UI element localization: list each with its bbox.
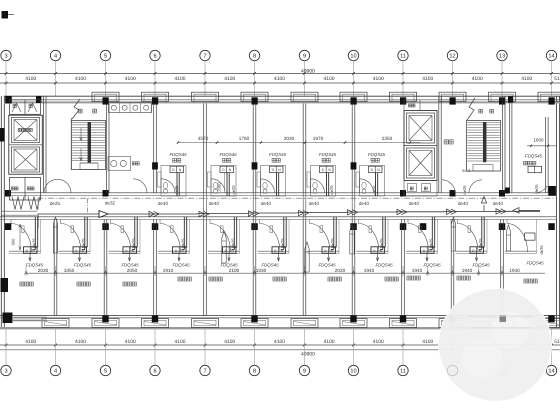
grid bubble 13 bottom [501, 329, 503, 365]
corridor supply duct polyline [1, 210, 37, 212]
svg-text:4100: 4100 [25, 76, 36, 82]
grid line [452, 61, 454, 96]
right elevator 1 [407, 113, 435, 143]
stairs right [467, 121, 501, 172]
svg-text:1600: 1600 [533, 138, 544, 143]
svg-text:de25: de25 [539, 245, 544, 255]
grid line [154, 61, 156, 96]
lower dim chain line [26, 272, 545, 274]
grid bubble 4 bottom [55, 329, 57, 365]
svg-text:de25: de25 [50, 201, 61, 206]
svg-text:5: 5 [104, 369, 107, 375]
grid line [5, 61, 7, 96]
svg-text:3: 3 [4, 54, 7, 60]
left-pointing arrow right end [513, 208, 519, 214]
svg-text:2030: 2030 [284, 136, 295, 141]
svg-text:51: 51 [554, 339, 560, 345]
top-left corner mark [2, 11, 9, 19]
svg-text:FDQS45: FDQS45 [472, 262, 490, 267]
grid bubble 5 bottom [105, 329, 107, 365]
right elevator 2 [407, 148, 435, 178]
grid line [501, 61, 503, 96]
svg-text:1940: 1940 [509, 268, 520, 273]
big supply arrow [99, 211, 108, 218]
svg-text:de40: de40 [158, 201, 169, 206]
svg-text:4100: 4100 [125, 339, 136, 345]
svg-text:FDQS45: FDQS45 [269, 152, 287, 157]
grid bubble 14 bottom [551, 329, 553, 365]
bottom small rooms [10, 178, 41, 201]
left wall column marks [0, 128, 5, 142]
right stair break [467, 98, 475, 120]
svg-text:de32: de32 [105, 201, 116, 206]
grid bubble 10 bottom [353, 329, 355, 365]
lower room unit [158, 250, 190, 252]
svg-text:2060: 2060 [217, 182, 222, 192]
grid bubble 4 top [50, 50, 60, 60]
svg-text:FDQS45: FDQS45 [318, 262, 336, 267]
svg-text:4100: 4100 [373, 76, 384, 82]
stair left wall [70, 118, 72, 170]
svg-text:49900: 49900 [301, 68, 315, 74]
left exterior wall [0, 96, 2, 329]
svg-text:9: 9 [303, 54, 306, 60]
svg-text:de25: de25 [429, 238, 434, 248]
svg-text:4100: 4100 [324, 76, 335, 82]
lower room unit [308, 250, 340, 252]
grid line [402, 61, 404, 96]
watermark ghost column [500, 315, 507, 322]
svg-text:1940: 1940 [412, 268, 423, 273]
lower room unit [59, 250, 91, 252]
svg-text:de25: de25 [81, 238, 86, 248]
wash basins [108, 157, 131, 171]
right core elevator block [404, 111, 437, 181]
svg-text:4100: 4100 [324, 339, 335, 345]
upper interior dimension line [178, 142, 420, 144]
right end riser [545, 117, 547, 193]
svg-text:4570: 4570 [198, 136, 209, 141]
grid bubble 7 top [200, 50, 210, 60]
lower room unit [9, 250, 41, 252]
top exterior wall [4, 95, 560, 97]
total dimension line top [0, 72, 560, 74]
svg-text:4: 4 [54, 369, 57, 375]
svg-text:de40: de40 [309, 201, 320, 206]
grid bubble 7 bottom [204, 329, 206, 365]
elevator 1 [12, 118, 40, 143]
svg-text:14: 14 [548, 369, 554, 375]
grid bubble 13 top [497, 50, 507, 60]
svg-text:de25: de25 [329, 185, 334, 195]
svg-text:FDQS45: FDQS45 [169, 152, 187, 157]
svg-text:6: 6 [153, 369, 156, 375]
bottom dimension band and bubbles [0, 344, 560, 346]
svg-text:4100: 4100 [422, 76, 433, 82]
lower room unit [109, 250, 141, 252]
supply branch up arrow [483, 205, 485, 211]
svg-text:de40: de40 [209, 201, 220, 206]
right end upper wall [509, 96, 511, 193]
svg-text:2350: 2350 [382, 136, 393, 141]
svg-text:de25: de25 [231, 238, 236, 248]
grid line [254, 61, 256, 96]
svg-text:FDQS45: FDQS45 [319, 152, 337, 157]
svg-text:de40: de40 [261, 201, 272, 206]
pencil riser symbols [53, 217, 57, 253]
lower partition walls/risers [53, 219, 55, 315]
svg-text:FDQS45: FDQS45 [423, 262, 441, 267]
corridor bottom wall [0, 216, 556, 218]
svg-text:4100: 4100 [175, 339, 186, 345]
grid line [204, 61, 206, 96]
svg-text:de25: de25 [231, 185, 236, 195]
svg-text:4100: 4100 [373, 339, 384, 345]
svg-text:de25: de25 [131, 238, 136, 248]
svg-text:de40: de40 [493, 201, 504, 206]
corridor top wall [6, 192, 556, 194]
grid bubble 11 top [398, 50, 408, 60]
upper unit [311, 166, 336, 197]
top wall window bays [92, 92, 119, 101]
svg-text:de25: de25 [534, 184, 539, 194]
svg-text:1970: 1970 [313, 136, 324, 141]
svg-text:2030: 2030 [38, 268, 49, 273]
wc stall row [109, 103, 152, 113]
svg-text:1940: 1940 [364, 268, 375, 273]
svg-text:10: 10 [350, 369, 356, 375]
svg-text:FDQS45: FDQS45 [219, 152, 237, 157]
grid line [304, 61, 306, 96]
mid-left room door arc [133, 179, 147, 193]
svg-text:1910: 1910 [163, 268, 174, 273]
hall wall [43, 96, 45, 193]
bottom wall thick line [0, 327, 560, 329]
elevator shaft block [9, 115, 43, 174]
risers crossing corridor [203, 193, 205, 219]
grid bubble 6 top [150, 50, 160, 60]
svg-text:11: 11 [400, 54, 406, 60]
svg-text:2050: 2050 [127, 268, 138, 273]
svg-text:2020: 2020 [335, 268, 346, 273]
stair break line [72, 99, 80, 119]
mid columns [152, 162, 158, 169]
svg-text:4100: 4100 [274, 76, 285, 82]
svg-text:1760: 1760 [239, 136, 250, 141]
svg-text:de25: de25 [174, 185, 179, 195]
corridor-bottom columns [5, 223, 12, 230]
svg-text:de25: de25 [372, 185, 377, 195]
svg-text:13: 13 [499, 54, 505, 60]
svg-text:7: 7 [203, 54, 206, 60]
svg-text:1940: 1940 [462, 268, 473, 273]
svg-text:de25: de25 [32, 238, 37, 248]
svg-text:9: 9 [303, 369, 306, 375]
right end door arc [533, 186, 547, 193]
svg-text:de40: de40 [409, 201, 420, 206]
grid line [353, 61, 355, 96]
svg-text:FDQS45: FDQS45 [261, 262, 279, 267]
svg-text:4100: 4100 [75, 339, 86, 345]
corridor-top columns [5, 190, 11, 197]
svg-text:4100: 4100 [521, 76, 532, 82]
svg-text:FDQS45: FDQS45 [375, 262, 393, 267]
elevator 2 [12, 147, 40, 172]
right core lower rooms [404, 181, 437, 197]
svg-text:FDQS45: FDQS45 [26, 262, 44, 267]
svg-text:990: 990 [11, 238, 16, 245]
grid bubble 14 top [546, 50, 556, 60]
lower room unit [258, 250, 290, 252]
right core hall wall [438, 96, 440, 193]
svg-text:4100: 4100 [274, 339, 285, 345]
grid bubble 9 top [299, 50, 309, 60]
svg-text:8: 8 [253, 369, 256, 375]
stair arrows [80, 128, 82, 140]
lower room unit [208, 250, 240, 252]
svg-text:de25: de25 [478, 238, 483, 248]
grid line [55, 61, 57, 96]
top wall thick inner line [4, 101, 560, 103]
top wall columns [103, 97, 109, 104]
svg-text:de40: de40 [458, 201, 469, 206]
grid bubble 12 bottom [452, 329, 454, 365]
svg-text:4100: 4100 [224, 76, 235, 82]
stairs left [71, 121, 105, 170]
svg-text:FDQS45: FDQS45 [525, 154, 543, 159]
svg-text:1830: 1830 [256, 268, 267, 273]
svg-text:2100: 2100 [229, 268, 240, 273]
svg-text:49900: 49900 [301, 352, 315, 358]
upper unit [360, 166, 385, 197]
svg-text:XL-2: XL-2 [462, 168, 470, 173]
svg-text:5: 5 [104, 54, 107, 60]
lower room unit [406, 250, 438, 252]
lower room unit [456, 250, 488, 252]
grid bubble 8 top [249, 50, 259, 60]
hall label [444, 140, 448, 144]
svg-text:FDQS45: FDQS45 [172, 262, 190, 267]
svg-text:7: 7 [203, 369, 206, 375]
grid bubble 5 top [100, 50, 110, 60]
svg-text:11: 11 [400, 369, 406, 375]
svg-text:4100: 4100 [75, 76, 86, 82]
upper room partition risers [153, 104, 155, 193]
svg-text:4100: 4100 [175, 76, 186, 82]
right exterior wall [556, 96, 558, 329]
grid line [551, 61, 553, 96]
hall double door [44, 179, 58, 193]
svg-text:4100: 4100 [25, 339, 36, 345]
lower room unit [357, 250, 389, 252]
bottom-left corner column cluster [3, 313, 13, 324]
grid bubble 11 bottom [402, 329, 404, 365]
grid bubble 12 top [447, 50, 457, 60]
svg-text:8: 8 [253, 54, 256, 60]
upper unit [261, 166, 286, 197]
grid line [105, 61, 107, 96]
svg-text:14: 14 [548, 54, 554, 60]
svg-text:FDQS45: FDQS45 [526, 261, 544, 266]
svg-text:51: 51 [554, 76, 560, 82]
svg-text:de40: de40 [359, 201, 370, 206]
svg-text:de25: de25 [330, 238, 335, 248]
svg-text:4: 4 [54, 54, 57, 60]
svg-text:FDQS45: FDQS45 [121, 262, 139, 267]
watermark disc [438, 288, 552, 402]
bottom exterior wall [0, 315, 560, 317]
svg-text:4100: 4100 [472, 76, 483, 82]
svg-text:de25: de25 [181, 238, 186, 248]
grid bubble 10 top [348, 50, 358, 60]
lower room unit [505, 250, 537, 252]
upper unit [211, 166, 236, 197]
chain dimension line top [0, 82, 560, 84]
swing doors below [12, 197, 18, 210]
wall right of stairs [106, 104, 108, 193]
svg-text:4100: 4100 [125, 76, 136, 82]
svg-text:12: 12 [449, 54, 455, 60]
svg-text:FDQS45: FDQS45 [368, 152, 386, 157]
upper unit [161, 166, 186, 197]
grid bubble 3 bottom [5, 329, 7, 365]
svg-text:6: 6 [153, 54, 156, 60]
svg-text:de25: de25 [280, 238, 285, 248]
ghost bubble 12 [447, 365, 457, 375]
right core door arcs [442, 180, 455, 193]
corridor duct dash-dot line [38, 198, 556, 210]
svg-text:3: 3 [4, 369, 7, 375]
right stair wall [502, 96, 504, 193]
duct flow chevrons [149, 211, 155, 216]
svg-text:4100: 4100 [224, 339, 235, 345]
bottom-left thick wall [12, 317, 47, 319]
bottom wall columns [102, 315, 108, 322]
svg-text:FDQS45: FDQS45 [74, 262, 92, 267]
left core: top small rooms [10, 100, 41, 115]
right core machine room [404, 100, 420, 111]
grid bubble 9 bottom [304, 329, 306, 365]
svg-text:10: 10 [350, 54, 356, 60]
svg-text:4100: 4100 [422, 339, 433, 345]
grid bubble 8 bottom [254, 329, 256, 365]
grid bubble 3 top [1, 50, 11, 60]
grid bubble 6 bottom [154, 329, 156, 365]
bottom wall window bays [42, 319, 69, 328]
svg-text:de25: de25 [462, 185, 467, 195]
svg-text:1850: 1850 [64, 268, 75, 273]
svg-text:de25: de25 [379, 238, 384, 248]
